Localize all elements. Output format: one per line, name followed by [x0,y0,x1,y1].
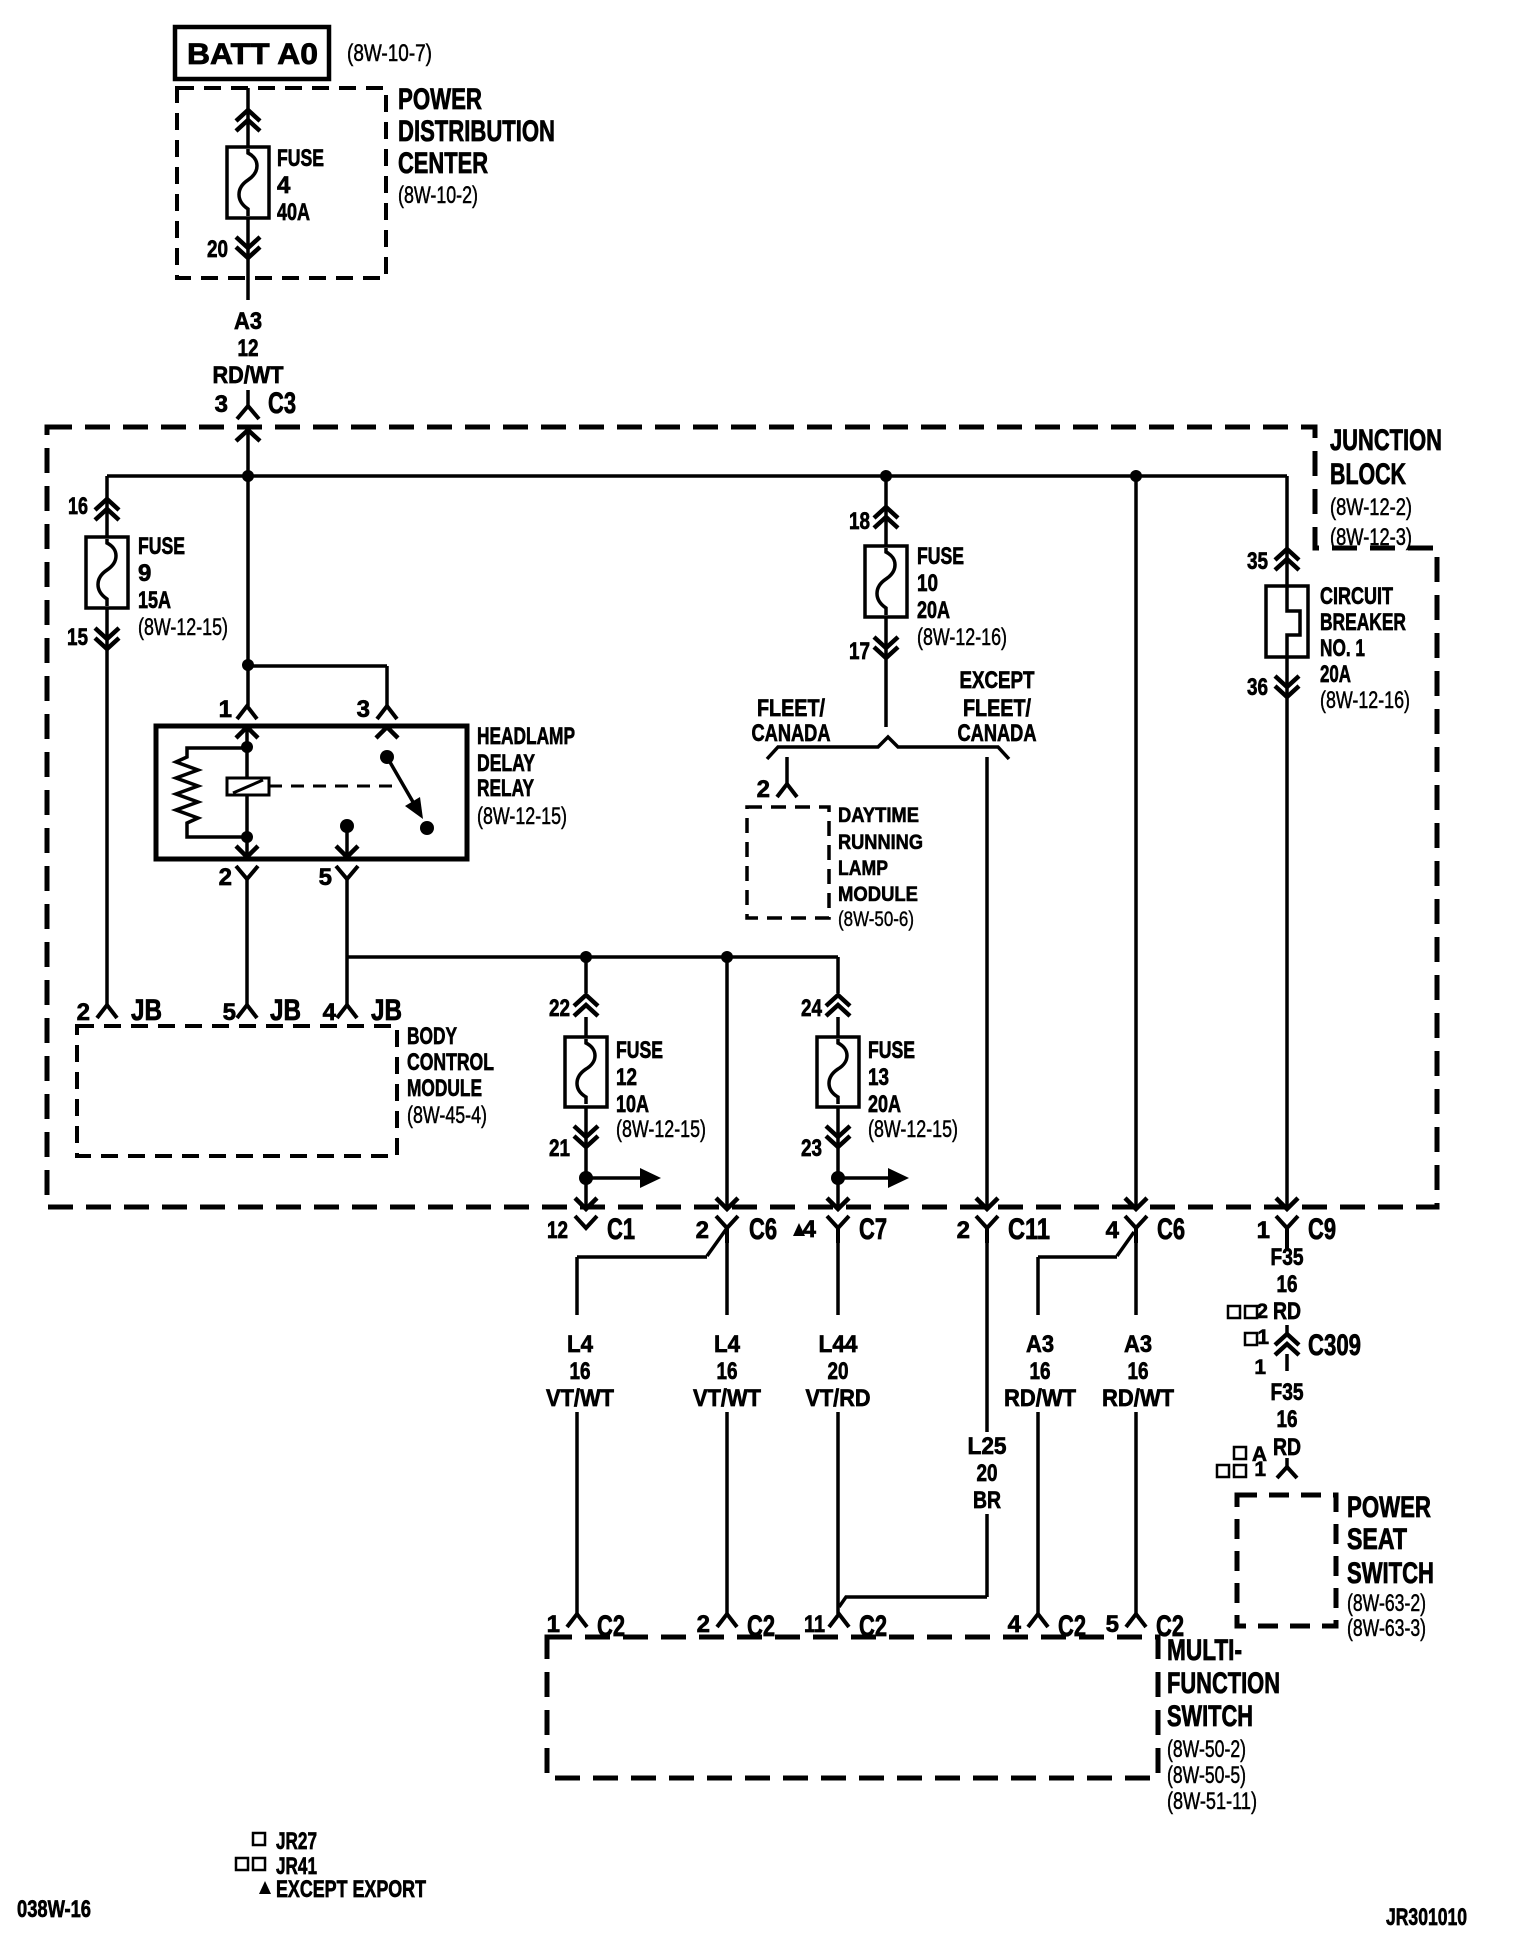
svg-text:MODULE: MODULE [838,883,918,906]
svg-text:038W-16: 038W-16 [17,1896,91,1923]
relay pin 1 entry chevron [236,727,258,738]
connector C3 entry chevron [236,430,260,441]
connector chevrons down pin 23 [826,1126,850,1147]
relay internal resistor [176,748,247,837]
svg-text:(8W-12-15): (8W-12-15) [477,803,567,830]
node dot fuse12 branch [580,951,592,963]
svg-text:10A: 10A [616,1091,649,1118]
svg-text:2: 2 [697,1611,710,1638]
node dot coil bottom [241,831,253,843]
svg-text:RD: RD [1273,1298,1301,1325]
node dot bus/C6 [1130,470,1142,482]
PSS pin fork [1277,1467,1297,1478]
svg-text:(8W-50-6): (8W-50-6) [838,908,914,931]
label POWER SEAT SWITCH (8W-63-2) (8W-63-3) [1347,1491,1434,1642]
svg-text:1: 1 [1254,1458,1266,1481]
svg-text:(8W-63-2): (8W-63-2) [1347,1590,1426,1617]
svg-text:2: 2 [757,776,770,803]
svg-text:(8W-10-2): (8W-10-2) [398,182,478,209]
svg-text:(8W-63-3): (8W-63-3) [1347,1615,1426,1642]
BCM pin 5 fork [237,1005,257,1018]
label FLEET/ CANADA [752,695,831,747]
wire bus down to fuse 10 [884,476,888,546]
svg-text:16: 16 [1030,1358,1051,1385]
C9 exit chevron [1276,1198,1298,1209]
svg-text:C11: C11 [1008,1213,1050,1246]
svg-text:SWITCH: SWITCH [1347,1557,1434,1590]
label FUSE 10 20A (8W-12-16) [917,543,1007,651]
svg-text:(8W-45-4): (8W-45-4) [407,1102,487,1129]
fuse F4 40A [227,147,269,218]
svg-text:EXCEPT: EXCEPT [960,667,1035,694]
connector chevrons up pin 18 [874,507,898,528]
fuse F12 10A [565,1037,607,1107]
connector chevrons down pin 36 [1275,676,1299,697]
svg-text:(8W-10-7): (8W-10-7) [347,40,432,67]
connector chevrons up pin 16 [95,499,119,520]
connector C11 fork [976,1216,998,1243]
svg-text:SEAT: SEAT [1347,1523,1407,1556]
wire label L25 20 BR [968,1433,1007,1514]
svg-text:40A: 40A [277,199,310,226]
svg-text:20A: 20A [917,597,950,624]
node dot at C3/bus [242,470,254,482]
connector chevrons up pin 22 [574,995,598,1016]
svg-text:23: 23 [801,1135,822,1162]
label MULTI-FUNCTION SWITCH (8W-50-2) (8W-50-5) (8W-51-11) [1167,1634,1280,1815]
svg-text:CONTROL: CONTROL [407,1049,494,1076]
fuse F10 20A [865,546,907,617]
svg-text:2: 2 [77,999,90,1026]
wire node to relay pin 3 [248,665,387,706]
label BODY CONTROL MODULE (8W-45-4) [407,1023,494,1129]
wire brace to DRL pin 2 [785,757,789,784]
relay pin 2 fork below [236,866,258,879]
svg-text:F35: F35 [1271,1379,1304,1406]
svg-text:DISTRIBUTION: DISTRIBUTION [398,115,555,148]
branch arrow fuse 13 [838,1168,909,1188]
C309 squares pin 2 marker [1228,1300,1268,1323]
wire label L4 16 VT/WT (left) [546,1331,614,1412]
svg-text:35: 35 [1247,548,1268,575]
svg-text:5: 5 [1106,1611,1119,1638]
squares pin 1 marker (PSS) [1217,1458,1266,1481]
svg-text:16: 16 [1277,1406,1298,1433]
svg-text:20: 20 [977,1460,998,1487]
relay pin 3 fork [377,706,397,719]
svg-text:4: 4 [1106,1217,1120,1244]
C11 exit chevron [976,1198,998,1209]
svg-text:16: 16 [1128,1358,1149,1385]
svg-text:EXCEPT EXPORT: EXCEPT EXPORT [276,1876,426,1903]
label FUSE 12 10A (8W-12-15) [616,1037,706,1143]
label FUSE 9 15A (8W-12-15) [138,533,228,641]
body control module dashed box [77,1026,397,1156]
svg-text:17: 17 [849,638,870,665]
svg-text:13: 13 [868,1064,889,1091]
node dot bus/fuse10 [880,470,892,482]
svg-text:3: 3 [357,696,370,723]
svg-text:A3: A3 [1124,1331,1152,1358]
wire L25 jog into 11 C2 [839,1597,987,1607]
svg-text:RELAY: RELAY [477,775,534,802]
svg-text:16: 16 [717,1358,738,1385]
wire to connector C3 [246,390,250,406]
wire label F35 16 RD (upper) [1271,1244,1304,1325]
wire down to 2 C2 [725,1412,729,1614]
svg-text:C7: C7 [859,1213,887,1246]
svg-text:RD/WT: RD/WT [213,362,284,389]
relay switch contact dot [420,821,434,835]
relay pin 1 fork [237,706,257,719]
svg-text:POWER: POWER [1347,1491,1431,1524]
wire fuse 10 to brace [884,617,888,727]
legend triangle EXCEPT EXPORT [259,1876,426,1903]
connector C2 fork (pin11) [829,1614,849,1627]
svg-text:POWER: POWER [398,83,482,116]
relay pin 5 wire [345,826,349,858]
wire down to 4 C2 [1036,1412,1040,1614]
wire relay pin2 to BCM pin 5 [245,879,249,1005]
svg-text:4: 4 [803,1216,817,1243]
relay pin 5 dot [340,819,354,833]
relay pin 5 exit chevron [336,846,358,857]
power seat switch dashed box [1237,1495,1336,1626]
svg-text:BLOCK: BLOCK [1330,458,1406,491]
wire C3 to bus [246,430,250,476]
connector chevrons up pin 35 [1275,549,1299,570]
connector chevrons down pin 21 [574,1126,598,1147]
svg-text:NO. 1: NO. 1 [1320,635,1365,662]
relay coil symbol [227,778,269,795]
svg-text:FLEET/: FLEET/ [963,695,1031,722]
svg-text:1: 1 [219,696,232,723]
svg-text:12: 12 [547,1217,568,1244]
wire C6 pin4 jog to left [1038,1232,1134,1315]
C309 square pin 1 marker [1245,1326,1269,1349]
svg-text:A3: A3 [234,308,262,335]
wire bus C6 pin4 column [1134,476,1138,1209]
label DAYTIME RUNNING LAMP MODULE (8W-50-6) [838,804,923,931]
svg-text:20A: 20A [1320,661,1351,688]
connector C2 fork (pin1) [567,1614,587,1627]
label HEADLAMP DELAY RELAY (8W-12-15) [477,723,575,830]
node dot fuse 12 output [579,1171,593,1185]
C1 exit chevron [575,1198,597,1209]
wire label A3 16 RD/WT (left) [1004,1331,1076,1412]
svg-text:CANADA: CANADA [958,720,1037,747]
wire label A3 16 RD/WT (right) [1102,1331,1174,1412]
svg-text:CIRCUIT: CIRCUIT [1320,583,1393,610]
connector chevrons up (PDC top) [236,110,260,131]
svg-text:(8W-12-16): (8W-12-16) [917,624,1007,651]
svg-text:(8W-12-15): (8W-12-15) [616,1116,706,1143]
relay switch common dot [380,750,394,764]
svg-text:(8W-12-2): (8W-12-2) [1330,494,1412,521]
svg-text:L4: L4 [714,1331,741,1358]
connector chevrons down pin 17 [874,637,898,658]
svg-text:JUNCTION: JUNCTION [1330,424,1442,457]
svg-text:4: 4 [277,172,291,199]
svg-text:(8W-12-15): (8W-12-15) [868,1116,958,1143]
wire C6 jog to left column [577,1228,727,1315]
svg-text:MODULE: MODULE [407,1075,482,1102]
svg-text:C9: C9 [1308,1213,1336,1246]
relay switch blade [387,757,413,802]
C7 exit chevron [827,1198,849,1209]
svg-text:FUSE: FUSE [138,533,185,560]
svg-text:4: 4 [1008,1611,1022,1638]
label POWER DISTRIBUTION CENTER [398,83,555,209]
daytime running lamp module dashed box [747,807,829,918]
svg-text:15A: 15A [138,587,171,614]
svg-text:CANADA: CANADA [752,720,831,747]
svg-text:LAMP: LAMP [838,857,888,880]
label FUSE 13 20A (8W-12-15) [868,1037,958,1143]
branch arrow fuse 12 [586,1168,661,1188]
bus wire across junction block [107,474,1287,478]
svg-text:JB: JB [131,994,162,1027]
footnote triangle + pin 4 [793,1216,817,1243]
svg-text:FUSE: FUSE [616,1037,663,1064]
svg-text:CENTER: CENTER [398,147,488,180]
svg-text:FUSE: FUSE [917,543,964,570]
svg-text:VT/WT: VT/WT [693,1385,761,1412]
junction block dashed border [47,427,1437,1207]
C6 pin4 exit chevron [1125,1198,1147,1209]
svg-text:FUSE: FUSE [868,1037,915,1064]
svg-text:BODY: BODY [407,1023,457,1050]
headlamp delay relay box [156,726,467,859]
multi-function switch dashed box [547,1637,1158,1778]
wire C7 down [836,1243,840,1315]
svg-text:20: 20 [828,1358,849,1385]
connector C2 fork (pin2) [717,1614,737,1627]
node dot above relay [242,659,254,671]
svg-text:9: 9 [138,560,151,587]
svg-text:DELAY: DELAY [477,750,535,777]
BCM pin 4 fork [337,1005,357,1018]
svg-text:C6: C6 [749,1213,777,1246]
battery feed box BATT A0 [175,27,329,79]
wire bus down to relay node [246,476,250,665]
wire segment above C309 [1285,1325,1289,1334]
svg-text:FLEET/: FLEET/ [757,695,825,722]
svg-text:4: 4 [323,999,337,1026]
svg-text:RD: RD [1273,1434,1301,1461]
svg-text:22: 22 [549,995,570,1022]
svg-text:21: 21 [549,1135,570,1162]
svg-text:A3: A3 [1026,1331,1054,1358]
power distribution center dashed box [177,88,386,278]
svg-text:16: 16 [570,1358,591,1385]
splice brace [767,737,1009,759]
label JUNCTION BLOCK [1330,424,1442,551]
svg-text:FUNCTION: FUNCTION [1167,1667,1280,1700]
label EXCEPT FLEET/ CANADA [958,667,1037,747]
legend square JR27 [253,1828,317,1855]
svg-text:(8W-51-11): (8W-51-11) [1167,1788,1257,1815]
svg-text:12: 12 [616,1064,637,1091]
wire segment below C309 [1285,1354,1289,1371]
svg-text:2: 2 [696,1217,709,1244]
svg-text:C6: C6 [1157,1213,1185,1246]
relay pin 2 exit chevron [236,846,258,857]
node dot fuse 13 output [831,1171,845,1185]
wire fuse 12 column [584,957,588,1209]
connector C309 chevrons up [1275,1334,1299,1355]
svg-text:(8W-50-5): (8W-50-5) [1167,1762,1246,1789]
svg-text:RD/WT: RD/WT [1004,1385,1076,1412]
legend squares JR41 [236,1853,317,1880]
wire C6 straight down [725,1243,729,1315]
wire fuse 13 column [836,957,840,1209]
relay pin 5 fork below [336,866,358,879]
svg-text:20A: 20A [868,1091,901,1118]
node dot coil top [241,741,253,753]
svg-text:RUNNING: RUNNING [838,831,923,854]
svg-text:(8W-50-2): (8W-50-2) [1167,1736,1246,1763]
wire to power seat switch [1285,1458,1289,1467]
wire except-fleet branch down to C11 [985,757,989,1209]
svg-text:C3: C3 [268,387,296,420]
distribution wire from pin 5 to fuses 12/13 [347,955,838,959]
svg-text:VT/WT: VT/WT [546,1385,614,1412]
wire bus corner down to circuit breaker [1285,476,1289,586]
svg-text:MULTI-: MULTI- [1167,1634,1242,1667]
wire down to 5 C2 [1134,1412,1138,1614]
svg-text:1: 1 [1254,1356,1266,1379]
connector C3 fork [237,406,259,419]
relay switch blade arrowhead [405,797,423,819]
relay coil wire pin1 [245,727,249,858]
label FUSE 4 40A [277,145,324,226]
svg-text:18: 18 [849,508,870,535]
svg-text:(8W-12-3): (8W-12-3) [1330,524,1412,551]
svg-text:(8W-12-15): (8W-12-15) [138,614,228,641]
svg-text:2: 2 [1256,1300,1268,1323]
wire relay pin5 to BCM pin 4 [345,879,349,1005]
relay coil-to-switch dashed link [269,785,401,788]
svg-text:11: 11 [804,1611,825,1638]
svg-text:2: 2 [219,864,232,891]
svg-text:DAYTIME: DAYTIME [838,804,919,827]
C6 exit chevron (pin2) [716,1198,738,1209]
label CIRCUIT BREAKER NO.1 20A (8W-12-16) [1320,583,1410,714]
connector chevrons down (PDC pin 20) [236,237,260,258]
svg-text:36: 36 [1247,674,1268,701]
connector C1 fork [575,1216,597,1228]
wire fuse4 to PDC bottom [246,218,250,300]
svg-text:15: 15 [67,624,88,651]
svg-text:JR27: JR27 [276,1828,317,1855]
fuse F9 15A [86,537,128,608]
DRL pin 2 fork [777,784,797,797]
svg-text:L44: L44 [819,1331,859,1358]
wire label A3 12 RD/WT [213,308,284,389]
svg-text:JB: JB [371,994,402,1027]
wire label F35 16 RD (lower) [1271,1379,1304,1461]
wire label L4 16 VT/WT (second) [693,1331,761,1412]
svg-text:BATT A0: BATT A0 [187,38,318,71]
svg-text:JR301010: JR301010 [1386,1904,1467,1931]
svg-text:16: 16 [1277,1271,1298,1298]
circuit breaker no.1 [1266,586,1308,657]
svg-text:3: 3 [215,391,228,418]
connector chevrons up pin 24 [826,995,850,1016]
svg-text:SWITCH: SWITCH [1167,1700,1253,1733]
connector chevrons down pin 15 [95,628,119,649]
connector C6 fork (pin4) [1125,1216,1147,1243]
wire C6 column upper [725,957,729,1209]
svg-text:24: 24 [801,995,823,1022]
svg-text:1: 1 [1257,1326,1269,1349]
connector C2 fork (pin5) [1126,1614,1146,1627]
svg-text:L4: L4 [567,1331,594,1358]
svg-text:20: 20 [207,236,228,263]
svg-text:5: 5 [223,999,236,1026]
node dot C6 branch [721,951,733,963]
svg-text:L25: L25 [968,1433,1007,1460]
svg-text:5: 5 [319,864,332,891]
svg-text:HEADLAMP: HEADLAMP [477,723,575,750]
connector C2 fork (pin4) [1028,1614,1048,1627]
svg-text:C1: C1 [607,1213,635,1246]
connector C7 fork [827,1216,849,1243]
wire L25 down to jog [985,1514,989,1597]
svg-text:(8W-12-16): (8W-12-16) [1320,687,1410,714]
wire down to 1 C2 [575,1412,579,1614]
svg-text:C309: C309 [1308,1329,1361,1362]
svg-text:JB: JB [270,994,301,1027]
connector C6 fork (pin2) [716,1216,738,1243]
wire fuse 9 to BCM pin 2 [105,608,109,1005]
wire C6 pin4 straight down [1134,1243,1138,1315]
square pin A marker [1234,1443,1267,1466]
fuse F13 20A [817,1037,859,1107]
svg-text:FUSE: FUSE [277,145,324,172]
svg-text:BR: BR [973,1487,1001,1514]
svg-text:BREAKER: BREAKER [1320,609,1406,636]
svg-text:VT/RD: VT/RD [806,1385,871,1412]
svg-text:2: 2 [957,1217,970,1244]
BCM pin 2 fork [97,1005,117,1018]
wire down to 11 C2 [836,1412,840,1614]
wire label L44 20 VT/RD [806,1331,871,1412]
svg-text:1: 1 [1257,1217,1270,1244]
wire circuit breaker down to C9 [1285,657,1289,1209]
svg-text:1: 1 [547,1611,560,1638]
wire bus down to fuse 9 [105,476,109,537]
wire C11 down [985,1243,989,1432]
svg-text:F35: F35 [1271,1244,1304,1271]
svg-text:16: 16 [68,493,88,520]
wire from BATT A0 into PDC [246,88,250,147]
svg-text:RD/WT: RD/WT [1102,1385,1174,1412]
svg-text:12: 12 [238,335,259,362]
svg-text:10: 10 [917,570,938,597]
relay pin 3 entry chevron [376,727,398,738]
connector C9 fork [1276,1216,1298,1251]
